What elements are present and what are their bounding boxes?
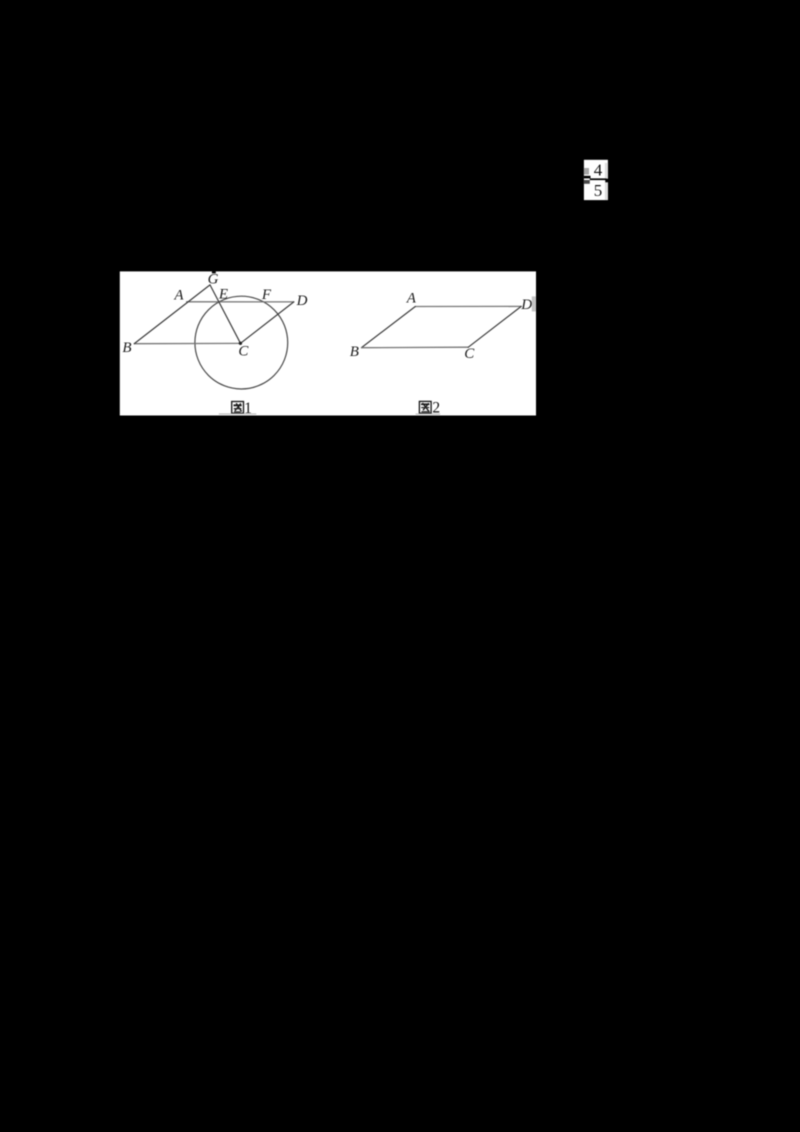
- fig1 line C to D: [241, 302, 294, 343]
- equals sign remnant: dark lower bar: [584, 180, 590, 184]
- svg-text:C: C: [238, 343, 249, 359]
- svg-text:A: A: [173, 288, 184, 304]
- svg-text:C: C: [464, 346, 475, 362]
- caption 图1 glyph box: [232, 402, 244, 414]
- fig1 line B to G: [134, 285, 210, 344]
- equals sign remnant: black top bar: [584, 176, 591, 179]
- svg-text:B: B: [122, 340, 131, 356]
- equals sign remnant: gray upper square: [584, 168, 589, 175]
- svg-text:4: 4: [594, 161, 603, 180]
- fig1 circle centered at C: [195, 296, 288, 389]
- fig1 line BC: [134, 342, 240, 344]
- fraction bar: [590, 178, 607, 180]
- svg-text:B: B: [350, 344, 359, 360]
- fig2 line BC: [362, 346, 469, 349]
- svg-text:D: D: [520, 297, 532, 313]
- svg-text:D: D: [296, 293, 308, 309]
- fig1 line AD through E,F: [187, 301, 294, 303]
- caption 图1 underline: [219, 413, 256, 414]
- black notch remnant at panel top edge above G: [212, 271, 216, 273]
- svg-text:5: 5: [594, 181, 603, 200]
- fig2 line CD: [468, 306, 521, 347]
- white figure panel: [120, 271, 536, 415]
- svg-text:F: F: [261, 287, 272, 303]
- svg-text:G: G: [208, 272, 219, 288]
- fig2 line AD: [415, 305, 521, 307]
- light gray strip inside fraction box right edge: [605, 163, 608, 200]
- caption 图2 glyph box: [419, 401, 431, 413]
- fig2 line AB: [362, 307, 416, 348]
- caption 图2 underline: [416, 414, 441, 415]
- svg-text:E: E: [218, 286, 228, 302]
- fig1 point C dot: [239, 342, 242, 345]
- svg-text:A: A: [406, 290, 417, 306]
- fig1 line G to C: [210, 285, 241, 343]
- black nub at right end of fraction bar: [605, 179, 608, 183]
- fig2 gray scan artifact bar right of D: [532, 296, 536, 311]
- fraction patch white box: [584, 160, 608, 200]
